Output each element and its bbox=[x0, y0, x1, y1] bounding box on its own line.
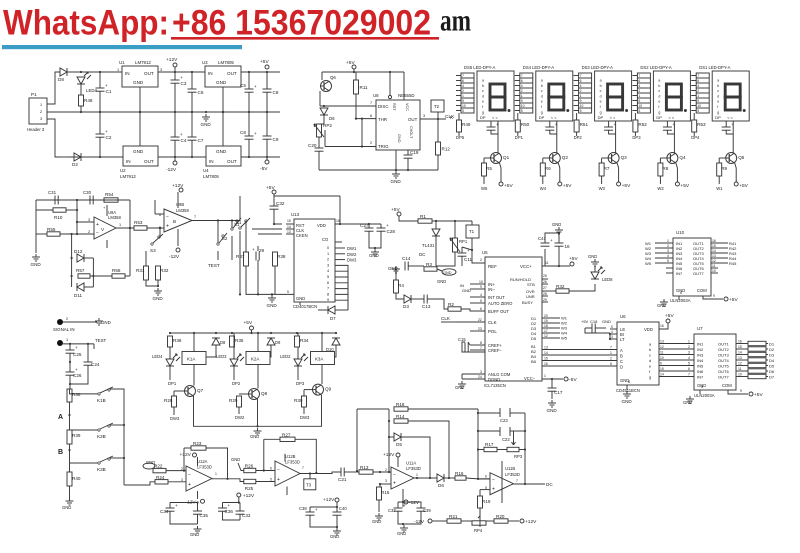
svg-text:TRIG: TRIG bbox=[378, 144, 389, 149]
switch S1b bbox=[231, 218, 241, 230]
DS1 digit 8 bbox=[725, 84, 746, 112]
wire c23 r bbox=[510, 412, 525, 414]
label C31 bbox=[48, 190, 57, 195]
svg-text:LED2: LED2 bbox=[280, 354, 291, 359]
svg-text:b: b bbox=[600, 84, 602, 88]
svg-text:8: 8 bbox=[680, 291, 682, 295]
svg-text:C21: C21 bbox=[338, 477, 347, 482]
wire u13 co stub bbox=[335, 241, 342, 243]
svg-text:T2: T2 bbox=[434, 104, 440, 109]
label u12a gnd bbox=[146, 460, 155, 465]
svg-text:VCC−: VCC− bbox=[524, 376, 536, 381]
label DW3b lbl bbox=[300, 415, 310, 420]
svg-text:DP: DP bbox=[480, 115, 486, 120]
svg-text:22: 22 bbox=[478, 318, 482, 322]
wire c38 bot bbox=[310, 515, 337, 527]
svg-text:R6: R6 bbox=[545, 166, 551, 171]
IC U8 NE555D bbox=[376, 100, 420, 150]
svg-text:f: f bbox=[717, 105, 718, 109]
U10 texts bbox=[670, 230, 707, 303]
svg-text:C31: C31 bbox=[48, 190, 57, 195]
power +5V relay bbox=[244, 320, 254, 330]
diode D8 bbox=[58, 68, 67, 82]
svg-text:COM: COM bbox=[697, 288, 707, 293]
svg-text:1: 1 bbox=[544, 374, 546, 378]
resistor R17 bbox=[484, 442, 497, 452]
DS4 segment letters bbox=[541, 79, 543, 115]
label Q4 none bbox=[0, 0, 1, 1]
wire c40 top bbox=[336, 502, 338, 512]
T1 text bbox=[469, 229, 475, 234]
wire c38 t2 bbox=[309, 507, 311, 512]
svg-text:9: 9 bbox=[740, 389, 742, 393]
svg-text:LM7805: LM7805 bbox=[203, 174, 219, 179]
ground c39 gnd bbox=[400, 525, 408, 532]
power +12V u11b bbox=[520, 519, 537, 525]
ground u7 gnd bbox=[686, 396, 694, 403]
svg-text:+: + bbox=[252, 247, 255, 252]
wire DS4 emit bbox=[558, 163, 560, 182]
U12A labels bbox=[181, 459, 217, 482]
svg-text:GND: GND bbox=[216, 80, 227, 85]
svg-text:R7: R7 bbox=[604, 166, 610, 171]
svg-text:+: + bbox=[254, 84, 257, 89]
svg-text:K3A: K3A bbox=[315, 357, 323, 362]
wire U3 out to +5V bbox=[241, 71, 280, 73]
ground c40 gnd bbox=[333, 528, 341, 535]
svg-text:2: 2 bbox=[88, 230, 90, 234]
op-amp U11B bbox=[490, 473, 514, 495]
svg-text:a: a bbox=[600, 79, 602, 83]
capacitor C33 bbox=[236, 511, 251, 518]
label sig gndt bbox=[101, 320, 111, 325]
label D9 lbl bbox=[275, 340, 281, 345]
label D6 name bbox=[329, 116, 335, 121]
svg-text:23: 23 bbox=[478, 327, 482, 331]
IC U4 LM7805 bbox=[206, 146, 241, 166]
svg-text:5: 5 bbox=[270, 478, 272, 482]
svg-text:9: 9 bbox=[580, 99, 582, 103]
resistor R21 bbox=[447, 514, 461, 523]
wire d6 out bbox=[444, 477, 455, 479]
svg-text:4: 4 bbox=[580, 84, 582, 88]
DS4 pin numbers bbox=[521, 74, 525, 113]
wire +12v stub bbox=[174, 67, 176, 72]
svg-text:Q6: Q6 bbox=[330, 75, 336, 80]
DS2 pin stubs bbox=[632, 76, 637, 111]
power +5V u5 bbox=[569, 256, 578, 266]
svg-text:b: b bbox=[482, 84, 484, 88]
wire DS3 cap w bbox=[608, 121, 610, 127]
svg-text:R31: R31 bbox=[136, 268, 145, 273]
wire u10 com bbox=[703, 296, 723, 299]
svg-text:GND: GND bbox=[455, 385, 464, 390]
U13 pin14 bbox=[286, 225, 294, 229]
transistor Q7 bbox=[184, 386, 204, 397]
svg-text:Q9: Q9 bbox=[325, 387, 332, 392]
svg-text:16: 16 bbox=[565, 244, 571, 249]
wire d10 drop bbox=[335, 345, 337, 357]
resistor R20 bbox=[494, 514, 508, 523]
svg-text:C23: C23 bbox=[500, 418, 508, 423]
wire DS1 cap w2 bbox=[726, 130, 733, 134]
wire u6 out6 bbox=[659, 376, 694, 378]
svg-text:13: 13 bbox=[660, 340, 664, 344]
svg-text:5: 5 bbox=[611, 325, 613, 329]
U7 pin8 bbox=[701, 385, 703, 389]
capacitor C21 bbox=[338, 468, 347, 483]
wire r28 bot bbox=[173, 407, 175, 415]
svg-text:LM7912: LM7912 bbox=[120, 174, 136, 179]
svg-text:C8: C8 bbox=[273, 90, 279, 95]
svg-text:12: 12 bbox=[544, 334, 548, 338]
svg-text:R38: R38 bbox=[277, 254, 286, 259]
wire r26 gnd lead bbox=[238, 463, 244, 471]
svg-text:< <: < < bbox=[492, 115, 498, 120]
resistor Rs1 bbox=[748, 341, 766, 345]
svg-text:29: 29 bbox=[543, 298, 547, 302]
svg-text:LM358: LM358 bbox=[108, 215, 121, 220]
transistor Q5 bbox=[725, 153, 745, 164]
label DC out bbox=[546, 482, 553, 487]
svg-text:9: 9 bbox=[462, 99, 464, 103]
wire U1 out to +12V bbox=[158, 71, 205, 73]
wire u9b minus in bbox=[155, 213, 164, 215]
svg-text:+: + bbox=[393, 481, 396, 487]
ground u9 gnd bbox=[31, 254, 42, 267]
svg-text:DS1 LED-DPY-A: DS1 LED-DPY-A bbox=[699, 65, 730, 70]
svg-text:-12V: -12V bbox=[409, 500, 420, 506]
U10 outpin4 bbox=[712, 259, 716, 263]
U13 pin13 bbox=[286, 230, 294, 234]
svg-text:C28: C28 bbox=[387, 229, 396, 234]
svg-text:U10: U10 bbox=[676, 230, 685, 235]
resistor R53 bbox=[692, 120, 706, 132]
svg-text:+: + bbox=[492, 486, 495, 492]
IC T1 box bbox=[466, 225, 479, 238]
wire u13 out5 bbox=[335, 277, 348, 310]
svg-text:U12B: U12B bbox=[285, 454, 296, 459]
wire c6 w bbox=[191, 72, 193, 89]
label W4 net u5 bbox=[561, 331, 568, 336]
wire u11b in6 bbox=[478, 478, 490, 480]
label DW3 net bbox=[347, 258, 357, 263]
power -12V bbox=[166, 161, 177, 173]
wire u7 outw5 bbox=[766, 370, 768, 372]
wire u12a pwr dn bbox=[197, 491, 199, 499]
svg-text:g: g bbox=[482, 110, 484, 114]
resistor R32b bbox=[156, 266, 169, 280]
svg-text:GND: GND bbox=[369, 253, 379, 258]
wire DS5 emit bbox=[500, 163, 502, 182]
wire d5 left bbox=[389, 436, 394, 438]
svg-text:C17: C17 bbox=[554, 390, 563, 395]
capacitor C31 bbox=[55, 196, 58, 205]
label sig chain gndt bbox=[62, 505, 71, 510]
transistor Q8 bbox=[248, 389, 268, 400]
svg-text:+12V: +12V bbox=[243, 493, 255, 499]
label C39 lbl bbox=[423, 508, 431, 513]
svg-text:U3: U3 bbox=[202, 60, 208, 65]
svg-text:2: 2 bbox=[462, 89, 464, 93]
U5 pin1 bbox=[544, 374, 546, 378]
svg-text:R27: R27 bbox=[282, 432, 291, 437]
svg-text:14: 14 bbox=[287, 225, 291, 229]
svg-text:6: 6 bbox=[638, 79, 640, 83]
wire r55 row a bbox=[36, 233, 47, 235]
label DP1 lbl bbox=[168, 381, 177, 386]
diode D6 bbox=[320, 108, 328, 115]
svg-text:D3: D3 bbox=[769, 353, 775, 358]
resistor R54 bbox=[104, 192, 118, 202]
svg-text:Q1: Q1 bbox=[503, 155, 510, 160]
wire DS4 base-res bbox=[542, 158, 544, 163]
svg-text:GND: GND bbox=[231, 457, 240, 462]
svg-text:14: 14 bbox=[738, 351, 742, 355]
svg-text:9: 9 bbox=[638, 99, 640, 103]
resistor RP4 bbox=[472, 521, 486, 525]
resistor R9 bbox=[717, 163, 728, 176]
svg-text:B8: B8 bbox=[531, 359, 537, 364]
svg-text:D2: D2 bbox=[72, 162, 78, 167]
capacitor C2 bbox=[96, 129, 112, 140]
wire DS4 res bot bbox=[517, 132, 519, 136]
svg-text:7: 7 bbox=[480, 346, 482, 350]
label u5 gndt bbox=[455, 385, 464, 390]
wire test vert bbox=[93, 344, 95, 349]
svg-text:1: 1 bbox=[416, 473, 418, 477]
wire c6 w2 bbox=[191, 92, 193, 112]
IC K3A bbox=[311, 352, 335, 365]
wire c40 bot bbox=[336, 515, 338, 528]
wire u11a out bbox=[414, 477, 437, 479]
label DP3 label bbox=[632, 135, 641, 140]
wire u13 cken wire bbox=[258, 233, 282, 235]
U6 outpin5 bbox=[660, 367, 690, 371]
svg-text:D7: D7 bbox=[330, 316, 336, 321]
svg-text:+12V: +12V bbox=[166, 57, 178, 63]
switch K3B bbox=[97, 456, 113, 472]
resistor R30 bbox=[294, 396, 307, 407]
svg-text:CLK: CLK bbox=[488, 320, 497, 325]
svg-text:GND: GND bbox=[250, 434, 259, 439]
svg-text:2: 2 bbox=[688, 345, 690, 349]
svg-text:b: b bbox=[717, 84, 719, 88]
svg-text:7: 7 bbox=[194, 215, 196, 219]
svg-text:CLK: CLK bbox=[441, 316, 451, 321]
DS3 segment letters bbox=[600, 79, 602, 115]
label W5 net u5 bbox=[561, 336, 568, 341]
svg-text:0: 0 bbox=[327, 246, 329, 250]
svg-text:1: 1 bbox=[521, 94, 523, 98]
ground u13 gnd left bbox=[267, 295, 278, 308]
U7 outpin4 bbox=[738, 362, 742, 366]
wire DS3 base-res bbox=[601, 158, 603, 163]
U10 outpin1 bbox=[712, 244, 716, 248]
wire DS2 base wire bbox=[660, 157, 666, 159]
capacitor C5 bbox=[240, 83, 257, 92]
svg-text:13: 13 bbox=[544, 346, 548, 350]
svg-text:+: + bbox=[386, 223, 389, 228]
svg-text:4: 4 bbox=[667, 254, 669, 258]
svg-text:2: 2 bbox=[521, 89, 523, 93]
svg-text:RST: RST bbox=[392, 103, 396, 111]
label W4 label bbox=[540, 186, 547, 191]
U7 outpin6 bbox=[738, 373, 742, 377]
label D7 net bbox=[769, 375, 775, 380]
label D5 net bbox=[769, 364, 775, 369]
capacitor C34 bbox=[160, 503, 178, 514]
DS3 pin numbers bbox=[580, 74, 584, 113]
svg-text:−: − bbox=[188, 472, 191, 478]
wire DS3 base wire bbox=[602, 157, 608, 159]
wire c33 w2 bbox=[239, 514, 241, 520]
svg-text:4: 4 bbox=[327, 269, 329, 273]
wire r39 down bbox=[68, 444, 70, 472]
wire u7 out1 bbox=[736, 348, 748, 350]
svg-text:GND: GND bbox=[101, 320, 111, 325]
wire r23 left drop bbox=[183, 448, 185, 471]
svg-text:DW2: DW2 bbox=[235, 415, 245, 420]
transistor Q3 bbox=[608, 153, 628, 164]
wire u11a pwr dn bbox=[402, 489, 404, 500]
wire r11 bot bbox=[355, 94, 357, 119]
svg-text:RP1: RP1 bbox=[459, 239, 468, 244]
svg-text:+: + bbox=[403, 503, 406, 508]
label Rb5 net bbox=[729, 261, 737, 266]
diode D4r bbox=[212, 338, 220, 345]
svg-text:1: 1 bbox=[327, 252, 329, 256]
DS5 digit 8 bbox=[490, 84, 511, 112]
svg-text:1: 1 bbox=[215, 472, 217, 476]
svg-text:B: B bbox=[620, 354, 623, 359]
resistor R25b bbox=[244, 479, 256, 491]
resistor R40 bbox=[67, 472, 81, 486]
wire c2 w2 bbox=[99, 137, 101, 157]
svg-text:−5V: −5V bbox=[568, 377, 577, 383]
svg-text:R10: R10 bbox=[54, 215, 63, 220]
capacitor C30 bbox=[90, 196, 93, 205]
power +12V u12a bbox=[180, 452, 197, 458]
wire c20 bot bbox=[318, 151, 320, 170]
wire in3 wire bbox=[76, 221, 94, 223]
svg-text:WhatsApp:: WhatsApp: bbox=[3, 4, 169, 43]
wire P1 pin3 to bottom rail bbox=[47, 119, 60, 157]
wire r18 left bbox=[357, 408, 389, 410]
U10 outpin6 bbox=[712, 269, 716, 273]
wire u5 d2 bbox=[542, 322, 560, 324]
svg-text:CO: CO bbox=[322, 237, 329, 242]
ground r15 gnd bbox=[375, 513, 383, 520]
svg-text:VDD: VDD bbox=[317, 223, 326, 228]
wire r15 dn bbox=[378, 500, 380, 512]
svg-text:f: f bbox=[541, 105, 542, 109]
U13 pin5 bbox=[287, 290, 289, 294]
svg-text:D7: D7 bbox=[769, 375, 775, 380]
op-amp U9B LM358 bbox=[164, 209, 192, 232]
svg-text:DP1: DP1 bbox=[515, 135, 524, 140]
svg-text:GND: GND bbox=[462, 288, 471, 293]
wire r17-rp3 bbox=[497, 449, 507, 451]
wire u5 vccminus bbox=[542, 378, 563, 380]
svg-text:C34: C34 bbox=[160, 509, 169, 514]
svg-text:+5V: +5V bbox=[563, 183, 572, 189]
svg-text:OUT: OUT bbox=[144, 71, 154, 76]
label node B bbox=[58, 449, 63, 456]
wire c3 w bbox=[174, 72, 176, 80]
label LED4b lbl bbox=[152, 354, 163, 359]
wire u6 out2 bbox=[659, 354, 694, 356]
wire t1 down bbox=[471, 238, 485, 263]
label +5V C18 GND row bbox=[581, 319, 589, 324]
wire DS4 cap w bbox=[549, 121, 551, 127]
wire t3 up bbox=[309, 474, 311, 479]
svg-text:10: 10 bbox=[660, 356, 664, 360]
svg-text:U11A: U11A bbox=[406, 461, 416, 466]
svg-text:14: 14 bbox=[544, 351, 548, 355]
svg-text:+5V: +5V bbox=[346, 60, 355, 66]
wire r38 down bbox=[68, 402, 70, 430]
resistor Rs5 bbox=[748, 363, 766, 367]
wire u9a out bbox=[116, 227, 134, 229]
wire cb1 w bbox=[248, 112, 250, 136]
svg-text:e: e bbox=[482, 100, 484, 104]
wire u9b top feed bbox=[154, 200, 156, 214]
label W2 label bbox=[657, 186, 664, 191]
svg-text:OUT5: OUT5 bbox=[718, 364, 729, 369]
svg-text:T1: T1 bbox=[469, 229, 475, 234]
wire d7 wire bbox=[335, 309, 348, 311]
wire trig row bbox=[325, 146, 376, 148]
wire c18 wires bbox=[585, 327, 592, 329]
wire u6 out0 bbox=[659, 343, 694, 345]
U5 texts bbox=[482, 250, 537, 388]
wire r27 left bbox=[264, 438, 280, 440]
resistor R7 bbox=[599, 163, 610, 176]
svg-text:-5V: -5V bbox=[260, 166, 268, 172]
resistor R6 bbox=[540, 163, 551, 176]
wire u7 out4 bbox=[736, 365, 748, 367]
label C37 lbl bbox=[388, 508, 396, 513]
wire u6 out1 bbox=[659, 348, 694, 350]
label u7 gndt bbox=[683, 400, 692, 405]
power DS3 +5V bbox=[617, 182, 631, 189]
wire r18 right bbox=[408, 408, 478, 410]
svg-text:GND: GND bbox=[552, 222, 561, 227]
capacitor C16 bbox=[555, 243, 571, 249]
resistor R28 bbox=[164, 396, 177, 407]
U5 bpin2 bbox=[544, 357, 612, 361]
svg-text:3: 3 bbox=[688, 351, 690, 355]
capacitor C40 bbox=[333, 512, 342, 515]
wire led3 bot bbox=[233, 366, 235, 380]
svg-text:2: 2 bbox=[638, 89, 640, 93]
svg-text:C11: C11 bbox=[464, 257, 473, 262]
power DS1 +5V bbox=[734, 182, 748, 189]
transistor Q1 bbox=[490, 153, 510, 164]
svg-text:RP4: RP4 bbox=[474, 528, 483, 533]
wire u6 out4 bbox=[659, 365, 694, 367]
svg-text:D5: D5 bbox=[396, 442, 402, 447]
resistor R12 bbox=[436, 142, 451, 155]
svg-text:R34: R34 bbox=[300, 338, 309, 343]
svg-text:U1: U1 bbox=[119, 60, 125, 65]
svg-text:6: 6 bbox=[370, 114, 372, 118]
wire top rail left bbox=[67, 71, 122, 73]
wire r32 to led bbox=[569, 284, 595, 291]
label u10 gndt bbox=[657, 303, 666, 308]
wire u12b to u11 bus bbox=[356, 409, 358, 472]
